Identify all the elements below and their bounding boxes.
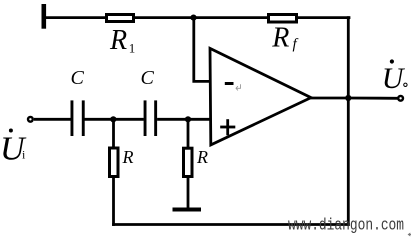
label Rf [271,23,298,54]
svg-text:R: R [122,147,134,167]
capacitor C1 [71,100,85,136]
resistor R (left, to bottom rail) [110,148,119,177]
node: output junction on right rail [345,95,351,101]
wire: inverting input feed from top node [194,18,210,82]
node A: junction of C1, C2 and feedback resistor R [110,116,116,122]
svg-text:R: R [196,147,208,167]
label Uo [382,59,407,95]
op-amp U1 [210,48,311,144]
svg-text:U: U [382,62,406,95]
pilcrow artifact next to minus [236,84,241,90]
label R1 [109,25,135,56]
node B: junction of C2 and grounded resistor R [185,116,191,122]
wire: Rf to right rail corner [296,16,350,19]
output terminal Uo (open circle) [398,96,403,101]
resistor R1 [107,15,134,22]
arrow artifact bottom-right corner [408,233,411,236]
wire: left resistor R to bottom rail [112,177,115,226]
ground [173,208,202,212]
ground terminal bar (left end of R1) [42,4,47,29]
label Ui [0,129,27,168]
capacitor C2 [144,100,157,136]
wire: op-amp output to right rail [310,97,350,100]
resistor Rf [269,15,297,23]
svg-text:C: C [71,67,85,89]
svg-text:1: 1 [129,41,136,56]
wire: node A down to left resistor R [112,119,115,148]
wire: right resistor R to ground [187,177,190,210]
svg-text:C: C [141,67,155,89]
op-amp inverting input marker (-) [225,82,234,85]
resistor R (right, to ground) [184,148,193,176]
input terminal Ui (open circle) [28,117,33,122]
svg-text:www.diangon.com: www.diangon.com [288,217,404,234]
wire: output junction to output terminal [348,97,397,100]
wire: right vertical rail (feedback / output rail) [347,16,350,226]
wire: input terminal to C1 [34,118,71,121]
node: junction of R1, Rf and inverting feed [190,15,196,21]
wire: R1 to Rf [134,16,270,19]
wire: node B down to right resistor R [187,119,190,148]
op-amp non-inverting input marker (+) [220,119,235,135]
wire: C2 to non-inverting input [157,118,210,121]
wire: terminal bar to R1 [44,16,107,19]
wire: C1 to C2 [84,118,143,121]
wire: bottom rail [112,223,350,226]
svg-text:R: R [109,25,127,56]
svg-text:R: R [271,23,289,54]
